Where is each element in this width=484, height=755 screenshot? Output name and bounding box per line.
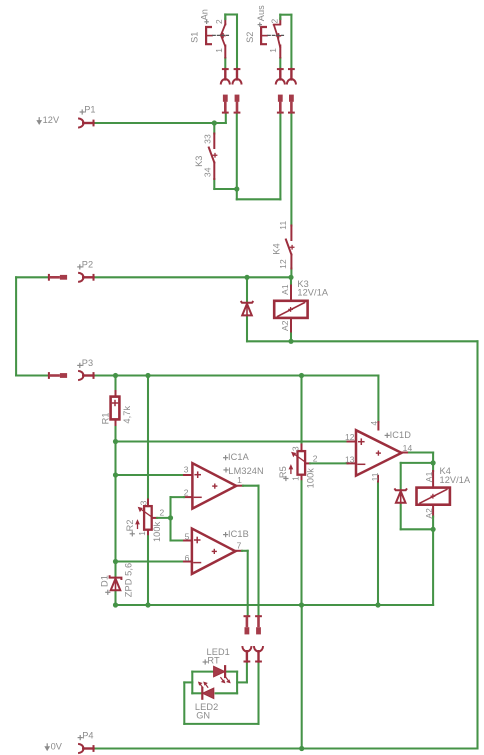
svg-text:A2: A2 (280, 320, 290, 331)
svg-text:6: 6 (185, 553, 190, 563)
svg-text:12V/1A: 12V/1A (297, 287, 329, 297)
svg-text:P4: P4 (82, 730, 93, 740)
svg-text:2: 2 (214, 19, 224, 24)
svg-text:12V/1A: 12V/1A (440, 475, 472, 485)
svg-text:34: 34 (203, 167, 213, 177)
svg-text:2: 2 (269, 19, 279, 24)
svg-text:13: 13 (345, 455, 355, 465)
svg-text:IC1B: IC1B (228, 529, 249, 539)
svg-text:P1: P1 (84, 105, 95, 115)
svg-text:33: 33 (203, 134, 213, 144)
svg-text:An: An (200, 9, 210, 20)
svg-text:4,7k: 4,7k (122, 406, 132, 424)
svg-text:2: 2 (313, 454, 318, 464)
svg-text:3: 3 (291, 446, 301, 451)
svg-text:A1: A1 (424, 471, 434, 482)
svg-text:0V: 0V (51, 741, 63, 751)
svg-text:RT: RT (207, 655, 220, 665)
svg-text:2: 2 (184, 487, 189, 497)
svg-text:1: 1 (237, 475, 242, 485)
svg-text:3: 3 (184, 464, 189, 474)
svg-text:D1: D1 (100, 575, 110, 587)
svg-text:11: 11 (278, 221, 288, 230)
svg-text:K4: K4 (271, 243, 281, 254)
svg-text:12: 12 (278, 259, 288, 269)
svg-text:12V: 12V (43, 115, 60, 125)
svg-text:ZPD 5,6: ZPD 5,6 (124, 563, 134, 597)
svg-text:GN: GN (196, 711, 210, 721)
svg-text:1: 1 (137, 531, 147, 536)
svg-text:S2: S2 (245, 31, 255, 42)
svg-text:P3: P3 (82, 358, 93, 368)
svg-text:1: 1 (291, 476, 301, 481)
svg-text:2: 2 (160, 508, 165, 518)
svg-text:LM324N: LM324N (228, 466, 263, 476)
svg-text:3: 3 (138, 500, 148, 505)
svg-text:IC1A: IC1A (228, 452, 250, 462)
svg-text:A1: A1 (280, 284, 290, 295)
svg-text:14: 14 (403, 443, 413, 453)
svg-text:5: 5 (185, 531, 190, 541)
svg-text:4: 4 (369, 421, 379, 426)
svg-text:R5: R5 (278, 466, 288, 478)
svg-text:A2: A2 (424, 508, 434, 519)
svg-text:100k: 100k (306, 468, 316, 489)
svg-text:R1: R1 (100, 412, 110, 424)
svg-text:P2: P2 (82, 260, 93, 270)
svg-text:Aus: Aus (256, 5, 266, 21)
svg-text:7: 7 (237, 541, 242, 551)
svg-text:IC1D: IC1D (390, 430, 412, 440)
svg-text:12: 12 (345, 432, 355, 442)
svg-text:1: 1 (214, 48, 224, 53)
svg-text:S1: S1 (189, 31, 199, 42)
svg-text:11: 11 (370, 472, 380, 481)
svg-text:R2: R2 (125, 519, 135, 531)
svg-text:1: 1 (268, 48, 278, 53)
svg-text:100k: 100k (152, 521, 162, 542)
svg-text:K3: K3 (194, 155, 204, 166)
